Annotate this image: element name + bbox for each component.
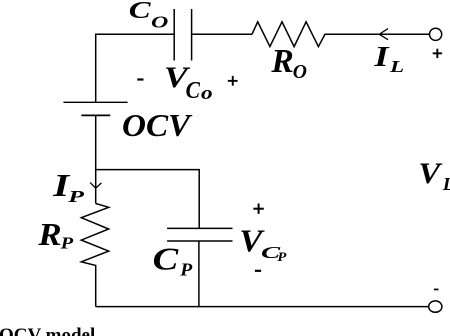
svg-text:C: C xyxy=(129,0,152,24)
svg-text:P: P xyxy=(59,235,73,253)
svg-text:OCV model: OCV model xyxy=(0,325,95,336)
svg-text:V: V xyxy=(418,157,442,190)
svg-text:C: C xyxy=(186,77,201,103)
svg-text:L: L xyxy=(442,175,450,194)
svg-text:O: O xyxy=(151,14,169,32)
svg-text:O: O xyxy=(293,61,307,83)
svg-text:OCV: OCV xyxy=(122,109,193,144)
svg-text:I: I xyxy=(373,42,390,74)
svg-text:P: P xyxy=(277,250,287,264)
svg-text:o: o xyxy=(201,82,213,103)
svg-text:R: R xyxy=(270,43,293,80)
svg-text:R: R xyxy=(37,217,61,252)
svg-text:C: C xyxy=(153,242,179,277)
svg-text:L: L xyxy=(389,58,404,76)
svg-text:P: P xyxy=(67,187,85,206)
svg-text:P: P xyxy=(179,260,193,280)
